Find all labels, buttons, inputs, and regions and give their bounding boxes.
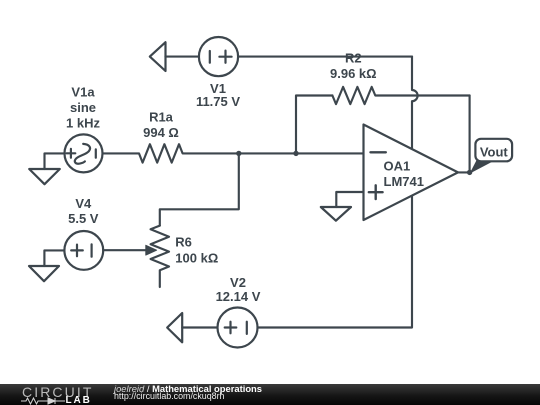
Vout flag pointer <box>470 160 492 173</box>
ground G2 <box>29 266 59 281</box>
svg-text:12.14 V: 12.14 V <box>216 289 261 304</box>
output node dot <box>467 170 472 175</box>
footer url line <box>114 391 225 401</box>
voltage source V4 <box>64 231 103 270</box>
svg-text:sine: sine <box>70 100 96 115</box>
wire plus input to ground <box>336 192 363 207</box>
label R6 value <box>175 235 218 266</box>
label V1 value <box>196 81 240 109</box>
svg-text:1 kHz: 1 kHz <box>66 115 100 130</box>
label V2 value <box>216 275 261 304</box>
voltage source V1 <box>199 37 238 76</box>
svg-text:9.96 kΩ: 9.96 kΩ <box>330 66 377 81</box>
logo resistor-diode doodle <box>21 397 65 405</box>
svg-text:OA1: OA1 <box>384 158 411 173</box>
op-amp OA1 body <box>364 125 459 221</box>
resistor R1a <box>103 144 364 162</box>
LAB text <box>66 395 92 405</box>
CircuitLab logo wordmark <box>22 384 93 400</box>
wire V2 to arrow <box>182 326 217 328</box>
label R2 value <box>330 51 377 81</box>
ground G1 <box>29 169 60 184</box>
junction node dot at feedback branch <box>293 151 298 156</box>
resistor R6 (vertical, with wiper) <box>151 226 169 287</box>
wire V1 to corner <box>238 56 412 58</box>
op-amp minus input marker <box>371 151 386 153</box>
svg-text:994 Ω: 994 Ω <box>143 125 179 140</box>
feedback wire up from node <box>296 96 332 154</box>
svg-text:100 kΩ: 100 kΩ <box>175 250 218 265</box>
label V1a sine 1 kHz <box>66 85 100 131</box>
Vout flag box <box>475 139 512 162</box>
wire op-amp V- pin down to V2 <box>258 195 412 327</box>
ground G3 <box>321 207 351 221</box>
wire branch down-left to R6 top <box>160 153 239 225</box>
wire down with hop over feedback <box>412 57 418 149</box>
op-amp plus input marker <box>369 185 383 199</box>
net flag arrow A2 (bottom) <box>167 313 182 342</box>
R6 wiper arrow <box>103 249 146 251</box>
wire V4 to ground <box>44 250 64 266</box>
output lead wire <box>458 171 470 173</box>
feedback wire down to output node <box>469 96 471 173</box>
label V4 value <box>68 196 99 226</box>
svg-text:R1a: R1a <box>149 110 174 125</box>
resistor R2 <box>332 87 469 104</box>
label R1a value <box>143 110 179 141</box>
voltage source V2 <box>218 308 258 348</box>
footer title line <box>114 383 262 394</box>
svg-text:R6: R6 <box>175 235 192 250</box>
footer bar <box>0 384 540 405</box>
junction node dot at R6 branch <box>236 151 241 156</box>
sine source V1a <box>65 134 103 172</box>
svg-text:Vout: Vout <box>480 144 509 159</box>
svg-text:5.5 V: 5.5 V <box>68 211 99 226</box>
svg-text:V2: V2 <box>230 275 246 290</box>
wire A1 to V1 <box>166 56 200 58</box>
svg-text:11.75 V: 11.75 V <box>196 94 240 109</box>
wire V1a to ground <box>45 153 65 169</box>
svg-text:V4: V4 <box>75 196 92 211</box>
label OA1 LM741 <box>384 158 424 189</box>
net flag arrow A1 (top left) <box>150 42 166 71</box>
svg-text:LM741: LM741 <box>384 174 424 189</box>
svg-text:R2: R2 <box>345 51 362 66</box>
svg-text:V1a: V1a <box>71 85 95 100</box>
